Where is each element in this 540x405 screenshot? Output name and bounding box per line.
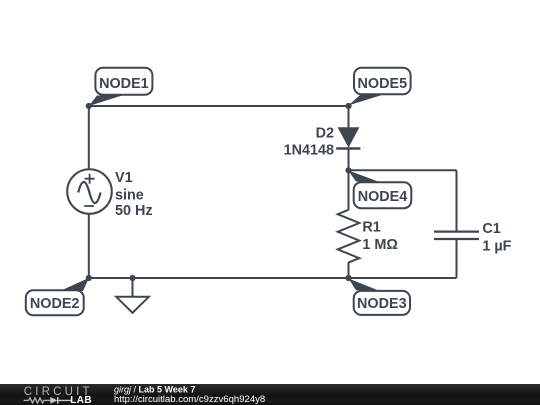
svg-text:1 MΩ: 1 MΩ [362,237,398,253]
svg-text:50 Hz: 50 Hz [115,203,153,219]
svg-text:R1: R1 [362,219,380,235]
svg-text:NODE3: NODE3 [357,296,407,312]
svg-text:D2: D2 [316,125,334,141]
svg-text:NODE2: NODE2 [30,296,80,312]
svg-text:NODE1: NODE1 [99,76,149,92]
svg-text:http://circuitlab.com/c9zzv6qh: http://circuitlab.com/c9zzv6qh924y8 [114,394,265,405]
svg-text:NODE4: NODE4 [358,189,408,205]
svg-text:V1: V1 [115,170,133,186]
svg-text:1N4148: 1N4148 [284,143,334,159]
svg-text:sine: sine [115,187,144,203]
svg-text:1 µF: 1 µF [482,239,511,255]
svg-text:C1: C1 [482,221,500,237]
svg-text:girgj / Lab 5 Week 7: girgj / Lab 5 Week 7 [114,385,195,395]
svg-text:LAB: LAB [70,395,92,405]
svg-text:NODE5: NODE5 [358,76,408,92]
